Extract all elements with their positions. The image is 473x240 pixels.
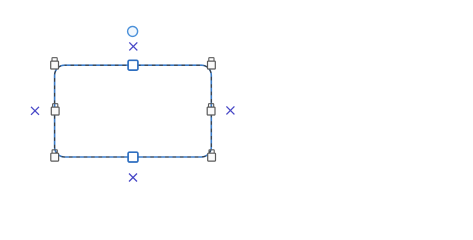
connection point: right cross bbox=[226, 106, 234, 114]
selection outline: dark dashed overlay bbox=[55, 65, 212, 157]
handle: bottom-right padlock bbox=[208, 150, 216, 161]
connection point: left cross bbox=[31, 107, 39, 115]
connection point: bottom cross bbox=[129, 174, 137, 182]
handle: bottom-left padlock bbox=[51, 150, 59, 161]
handle: middle-left padlock bbox=[51, 104, 59, 115]
handle: middle-right padlock bbox=[207, 104, 215, 115]
handle: bottom-center blue square bbox=[128, 152, 138, 162]
handle: top-center blue square bbox=[128, 60, 138, 70]
handle: top-right padlock bbox=[208, 58, 216, 69]
connection point: top cross bbox=[129, 42, 137, 50]
rotation handle: circle above top center bbox=[128, 26, 138, 36]
handle: top-left padlock bbox=[51, 58, 59, 69]
shape: rounded rectangle (selected, solid blue border) bbox=[55, 65, 212, 157]
